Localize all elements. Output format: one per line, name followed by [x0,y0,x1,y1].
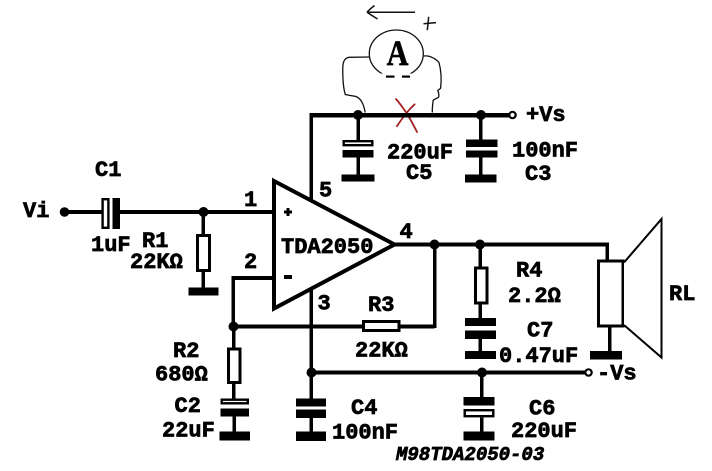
svg-text:R2: R2 [173,339,199,364]
svg-text:TDA2050: TDA2050 [281,235,373,260]
svg-text:RL: RL [669,282,695,307]
svg-text:220uF: 220uF [511,419,577,444]
svg-text:22KΩ: 22KΩ [355,339,408,364]
svg-text:C1: C1 [95,158,121,183]
svg-text:+Vs: +Vs [526,103,566,128]
svg-text:5: 5 [319,179,332,204]
svg-text:C5: C5 [406,161,432,186]
svg-text:100nF: 100nF [512,139,578,164]
svg-text:C3: C3 [525,162,551,187]
svg-text:3: 3 [318,292,331,317]
svg-text:C6: C6 [529,397,555,422]
svg-text:2: 2 [244,250,257,275]
svg-text:C4: C4 [351,396,377,421]
svg-text:R4: R4 [516,259,542,284]
svg-text:-Vs: -Vs [597,362,637,387]
svg-text:680Ω: 680Ω [155,363,208,388]
svg-text:0.47uF: 0.47uF [499,344,578,369]
svg-text:4: 4 [400,220,413,245]
svg-text:2.2Ω: 2.2Ω [508,284,561,309]
svg-text:1uF: 1uF [91,233,131,258]
svg-text:R3: R3 [368,293,394,318]
svg-text:C2: C2 [175,394,201,419]
svg-text:A: A [387,33,409,73]
svg-text:22uF: 22uF [162,419,215,444]
svg-text:Vi: Vi [23,199,49,224]
svg-text:C7: C7 [527,319,553,344]
svg-text:M98TDA2050-03: M98TDA2050-03 [395,444,545,466]
svg-text:1: 1 [244,188,257,213]
svg-text:100nF: 100nF [332,421,398,446]
svg-text:22KΩ: 22KΩ [130,250,183,275]
